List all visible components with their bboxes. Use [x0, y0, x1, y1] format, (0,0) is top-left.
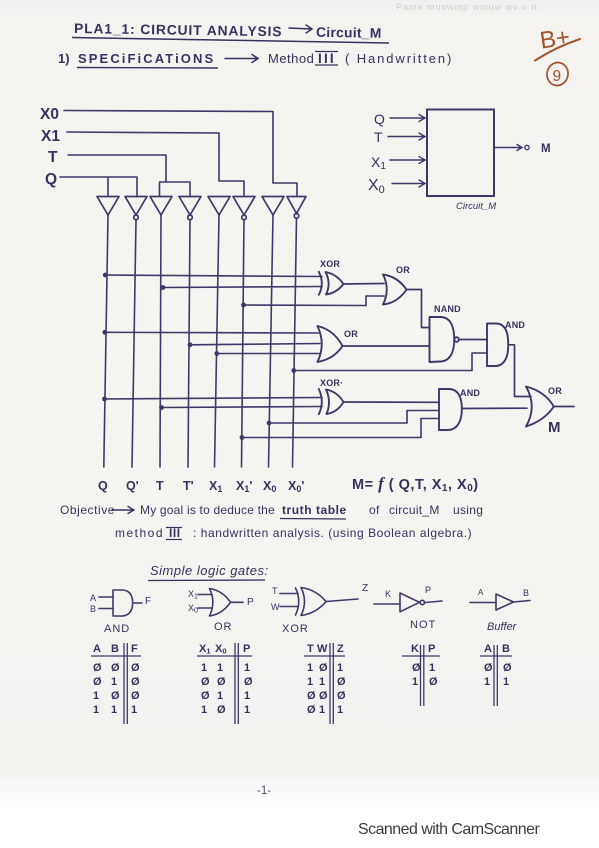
wire Q to XOR2 in1 [105, 398, 323, 400]
wire AND2 out to OR3 in2 [462, 407, 527, 409]
node X1/OR2 [214, 351, 219, 356]
svg-text:Ø: Ø [337, 676, 346, 688]
node Q/XOR1 [103, 273, 108, 278]
svg-text:1: 1 [201, 704, 207, 716]
grading circled 9 [545, 61, 570, 88]
wire OR2 out to NAND in2 [343, 345, 430, 347]
or gate OR2 (3-input) [318, 326, 343, 362]
svg-text:X0: X0 [188, 603, 198, 615]
horizontal product wires [105, 275, 488, 438]
xor gate XOR2 [326, 390, 344, 415]
svg-text:X0: X0 [40, 106, 59, 123]
circuit_M box [427, 110, 494, 197]
svg-text:1: 1 [307, 662, 313, 674]
svg-text:X1: X1 [199, 643, 211, 656]
III bars objective [166, 528, 182, 540]
wire T feed [68, 155, 190, 197]
svg-text:OR: OR [214, 621, 233, 633]
svg-text:9: 9 [553, 68, 562, 85]
title PLA1_1: CIRCUIT ANALYSIS -> Circuit_M [74, 21, 382, 41]
svg-text:M= f ( Q,T, X1, X0): M= f ( Q,T, X1, X0) [352, 474, 479, 494]
svg-text:F: F [131, 643, 138, 655]
input X0 arrow [392, 180, 425, 187]
svg-text:A: A [478, 588, 484, 597]
svg-text:A: A [90, 593, 96, 603]
svg-text:B: B [523, 588, 529, 598]
svg-text:1: 1 [307, 676, 313, 688]
svg-text:SPECiFiCATiONS: SPECiFiCATiONS [78, 51, 215, 66]
svg-text:Ø: Ø [217, 676, 226, 688]
svg-text:Q: Q [45, 171, 57, 188]
svg-text:X0: X0 [263, 479, 276, 494]
svg-text:1: 1 [484, 676, 490, 688]
grading mark B+ [538, 24, 571, 55]
and gate AND2 (3-input) [439, 389, 462, 430]
faint bleed-through text top edge [396, 2, 541, 12]
svg-text:P: P [243, 643, 250, 655]
wire bus T [160, 215, 161, 467]
svg-text:Ø: Ø [131, 676, 140, 688]
svg-text:Ø: Ø [503, 662, 512, 674]
and gate AND1 [487, 324, 508, 367]
wire bus X0' [293, 218, 297, 467]
svg-text:A: A [93, 643, 101, 655]
svg-text:B: B [111, 643, 119, 655]
svg-text:1: 1 [319, 704, 325, 716]
legend buffer gate [470, 594, 530, 610]
svg-text:1: 1 [503, 676, 509, 688]
inverter N4 (X0') [287, 197, 306, 214]
svg-text:T: T [307, 643, 314, 655]
svg-text:K: K [385, 589, 391, 599]
svg-text:Ø: Ø [201, 676, 210, 688]
wire T' to OR2 in2 [190, 344, 320, 345]
svg-text:AND: AND [460, 388, 480, 398]
svg-text:Ø: Ø [484, 662, 493, 674]
wire X0 feed [64, 111, 297, 197]
svg-text:T': T' [183, 479, 194, 493]
node T/XOR1 [161, 285, 166, 290]
legend XOR gate [280, 588, 358, 616]
svg-text:X1: X1 [371, 154, 386, 172]
node T'/OR2 [188, 342, 193, 347]
XOR truth table [307, 643, 346, 716]
junction dots [102, 273, 296, 440]
legend AND gate [99, 590, 142, 616]
svg-text:Circuit_M: Circuit_M [316, 25, 382, 41]
svg-text:T: T [48, 149, 58, 166]
wire bus Q [104, 215, 108, 467]
wire bus X1' [242, 220, 245, 467]
title underline [72, 38, 389, 44]
buffer B1 (Q) [97, 197, 119, 216]
svg-text:1: 1 [111, 704, 117, 716]
svg-text:Ø: Ø [93, 676, 102, 688]
svg-text:T: T [374, 129, 383, 145]
svg-text:X1: X1 [41, 128, 60, 145]
wire T to XOR2 in2 [162, 407, 323, 408]
node Q/OR2 [102, 330, 107, 335]
svg-text:M: M [548, 419, 561, 436]
or gate OR3 (output) [526, 387, 554, 427]
wire bus Q' [132, 220, 136, 467]
svg-text:P: P [247, 597, 254, 608]
node X1'/AND2 [240, 435, 245, 440]
svg-text:Ø: Ø [111, 690, 120, 702]
input X1 arrow [390, 157, 425, 164]
svg-text:1: 1 [429, 662, 435, 674]
wire X1' to OR1 in2 (stepped) [244, 296, 385, 306]
svg-text:OR: OR [548, 386, 562, 396]
wire Q feed [60, 177, 137, 197]
svg-text:Ø: Ø [244, 676, 253, 688]
buffer B2 (T) [150, 197, 172, 216]
svg-text:X0: X0 [368, 177, 385, 196]
wire OR3 out M [554, 406, 574, 408]
svg-text:Pama muvwmp wmuw wv u n.: Pama muvwmp wmuw wv u n. [396, 2, 541, 12]
SPECIFICATIONS underline [77, 67, 218, 70]
title arrow [289, 25, 312, 33]
buffers and inverters row [97, 197, 306, 220]
svg-text:Ø: Ø [93, 662, 102, 674]
wire AND1 out to OR3 in1 [508, 345, 531, 397]
node X0'/AND1 [291, 368, 296, 373]
wire XOR2 out to AND2 in1 [344, 401, 440, 403]
heading underline [148, 579, 265, 582]
svg-text:Circuit_M: Circuit_M [456, 201, 496, 212]
svg-text:F: F [145, 596, 151, 607]
svg-text:A: A [484, 643, 492, 655]
svg-text:III: III [318, 51, 336, 66]
svg-text:1: 1 [412, 676, 418, 688]
svg-text:1: 1 [93, 704, 99, 716]
svg-text:1: 1 [337, 704, 343, 716]
wire bus X0 [269, 215, 274, 467]
inverter N2 (T') [179, 197, 201, 216]
svg-text:AND: AND [104, 623, 130, 635]
buffer B4 (X0) [262, 197, 284, 216]
svg-text:Ø: Ø [131, 690, 140, 702]
svg-text:of: of [369, 503, 380, 517]
legend NOT gate [374, 593, 442, 612]
svg-text:Q: Q [374, 111, 385, 127]
svg-text:W: W [271, 602, 280, 612]
svg-text:method: method [115, 526, 164, 540]
svg-text:Ø: Ø [217, 704, 226, 716]
output M wire with arrowhead and bubble [494, 145, 522, 151]
svg-text:XOR: XOR [320, 259, 340, 269]
node Q/XOR2 [102, 397, 107, 402]
svg-text:X0: X0 [215, 643, 227, 656]
legend OR gate [198, 589, 243, 617]
svg-text:Ø: Ø [412, 662, 421, 674]
svg-text:M: M [541, 143, 551, 155]
svg-text:Q': Q' [126, 479, 139, 493]
wire Q to XOR1 in1 [105, 275, 322, 277]
inverter N1 (Q') [125, 197, 147, 216]
svg-text:OR: OR [396, 265, 410, 275]
svg-text:1: 1 [244, 690, 250, 702]
svg-text:Ø: Ø [111, 662, 120, 674]
svg-text:1: 1 [93, 690, 99, 702]
svg-text:Ø: Ø [319, 690, 328, 702]
svg-text:X1': X1' [236, 479, 252, 494]
svg-text:circuit_M: circuit_M [389, 503, 440, 517]
gate interconnect wires [343, 284, 575, 409]
svg-text:1: 1 [111, 676, 117, 688]
svg-text:truth table: truth table [282, 503, 347, 517]
wire X0 to AND2 in2 (stepped) [269, 411, 439, 424]
svg-text:Ø: Ø [337, 690, 346, 702]
svg-text:1: 1 [244, 662, 250, 674]
wire X1 feed [67, 132, 244, 197]
xor gate XOR1 [326, 272, 344, 295]
svg-text:1): 1) [58, 51, 70, 66]
svg-text:Z: Z [362, 583, 368, 594]
svg-text:Ø: Ø [307, 690, 316, 702]
svg-text:1: 1 [131, 704, 137, 716]
nand gate U-NAND [430, 317, 455, 362]
svg-text:: handwritten analysis. (usin: : handwritten analysis. (using Boolean a… [193, 526, 472, 540]
svg-text:NOT: NOT [410, 619, 436, 631]
svg-text:1: 1 [244, 704, 250, 716]
svg-text:Ø: Ø [201, 690, 210, 702]
wire T to XOR1 in2 [163, 287, 322, 288]
svg-text:My goal is to deduce the: My goal is to deduce the [140, 503, 275, 517]
wire X0' to AND1 in2 (stepped) [294, 353, 487, 371]
svg-text:AND: AND [505, 320, 525, 330]
buffer B3 (X1) [208, 197, 230, 216]
svg-text:using: using [453, 503, 483, 517]
svg-text:1: 1 [319, 676, 325, 688]
subtitle arrow [225, 55, 258, 63]
wire NAND out to AND1 in1 [459, 339, 487, 341]
or gate OR1 [383, 275, 407, 305]
svg-text:Objective: Objective [60, 503, 115, 517]
svg-text:Ø: Ø [307, 704, 316, 716]
grading slash line [535, 39, 580, 61]
svg-text:Method: Method [268, 51, 314, 66]
svg-text:B: B [502, 643, 510, 655]
AND truth table [93, 643, 140, 716]
wire X1' to AND2 in3 (stepped) [242, 419, 439, 438]
inverter N3 (X1') [233, 197, 255, 216]
svg-text:1: 1 [337, 662, 343, 674]
node X0/AND2 [267, 421, 272, 426]
truth table underline [280, 518, 346, 521]
svg-text:Ø: Ø [131, 662, 140, 674]
svg-text:B: B [90, 604, 96, 614]
svg-text:P: P [425, 585, 431, 595]
svg-text:Q: Q [98, 479, 108, 493]
buffer truth table [484, 643, 512, 688]
svg-text:Z: Z [337, 643, 344, 655]
wire Q to OR2 in1 [105, 331, 320, 334]
svg-text:X0': X0' [288, 479, 304, 494]
wire X1 to OR2 in3 [217, 353, 320, 355]
svg-text:Buffer: Buffer [487, 621, 518, 633]
wire bus T' [188, 220, 190, 467]
svg-text:PLA1_1: CIRCUIT ANALYSIS: PLA1_1: CIRCUIT ANALYSIS [74, 21, 283, 39]
svg-text:OR: OR [344, 329, 358, 339]
III roman numeral bars [315, 52, 338, 66]
svg-text:Ø: Ø [429, 676, 438, 688]
node T/XOR2 [159, 405, 164, 410]
node X1'/OR1 [241, 303, 246, 308]
objective arrow [112, 507, 134, 514]
svg-text:Simple logic gates:: Simple logic gates: [150, 563, 269, 578]
svg-text:P: P [428, 643, 435, 655]
svg-text:( Handwritten): ( Handwritten) [345, 51, 453, 66]
OR truth table [199, 643, 253, 716]
svg-text:X1: X1 [209, 479, 222, 494]
wire XOR1 out to OR1 in1 [344, 283, 385, 286]
svg-text:Ø: Ø [319, 662, 328, 674]
input Q arrow [390, 115, 425, 122]
svg-text:1: 1 [201, 662, 207, 674]
svg-text:NAND: NAND [434, 304, 461, 314]
svg-text:1: 1 [217, 690, 223, 702]
subtitle 1) SPECIFICATIONS -> Method III (Handwritten) [58, 51, 453, 66]
svg-text:T: T [156, 479, 164, 493]
NOT truth table [411, 643, 438, 688]
svg-text:XOR·: XOR· [320, 378, 343, 388]
svg-text:W: W [317, 643, 328, 655]
wire bus X1 [215, 215, 220, 467]
wire OR1 out to NAND in1 [407, 290, 430, 328]
svg-text:-1-: -1- [257, 785, 271, 797]
svg-text:Scanned with CamScanner: Scanned with CamScanner [358, 821, 540, 838]
svg-text:XOR: XOR [282, 623, 309, 635]
svg-text:X1: X1 [188, 589, 198, 601]
svg-text:K: K [411, 643, 419, 655]
input T arrow [388, 133, 425, 140]
gate labels [320, 259, 562, 398]
vertical bus lines [104, 215, 297, 467]
svg-text:1: 1 [217, 662, 223, 674]
svg-text:T: T [272, 586, 278, 596]
